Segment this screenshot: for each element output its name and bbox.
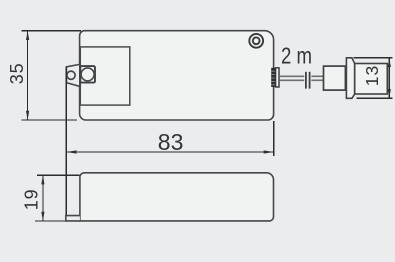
sensor plug body bbox=[324, 66, 346, 90]
strain relief collar bbox=[276, 68, 279, 87]
svg-text:35: 35 bbox=[7, 63, 27, 84]
dim 13: dimension line bbox=[388, 58, 390, 97]
svg-text:2 m: 2 m bbox=[281, 42, 312, 68]
cable segment 1 bbox=[279, 76, 304, 80]
indicator double circle bbox=[249, 34, 263, 48]
svg-text:83: 83 bbox=[158, 129, 184, 155]
connector circle bbox=[67, 71, 75, 79]
strain relief dark bar bbox=[271, 68, 275, 87]
cable break marks bbox=[306, 72, 310, 89]
sensor head flange bbox=[346, 58, 354, 99]
top view: driver body U1 bbox=[80, 31, 274, 120]
cable segment 2 bbox=[311, 76, 323, 80]
connector trapezoid on left bbox=[66, 64, 79, 86]
dim 83: right extension line bbox=[273, 121, 275, 156]
dim 19: dimension line bbox=[42, 176, 44, 221]
svg-text:19: 19 bbox=[22, 189, 42, 210]
terminal circle bbox=[81, 68, 94, 81]
svg-text:13: 13 bbox=[362, 66, 382, 87]
side view: driver body bbox=[80, 173, 274, 221]
side view: connector tab bbox=[66, 216, 80, 221]
dim 83: dimension line bbox=[67, 151, 274, 153]
sensor head body bbox=[355, 64, 388, 95]
dim 83: left extension line (connector face, runs to side view tab) bbox=[65, 67, 67, 215]
terminal square bbox=[80, 66, 95, 83]
dim 35: dimension line bbox=[27, 31, 29, 120]
inner compartment rectangle bbox=[80, 47, 130, 105]
dim 35: extension lines bbox=[22, 31, 82, 120]
dim 19: extension lines bbox=[35, 175, 79, 221]
dim 13: extension lines bbox=[354, 58, 393, 99]
